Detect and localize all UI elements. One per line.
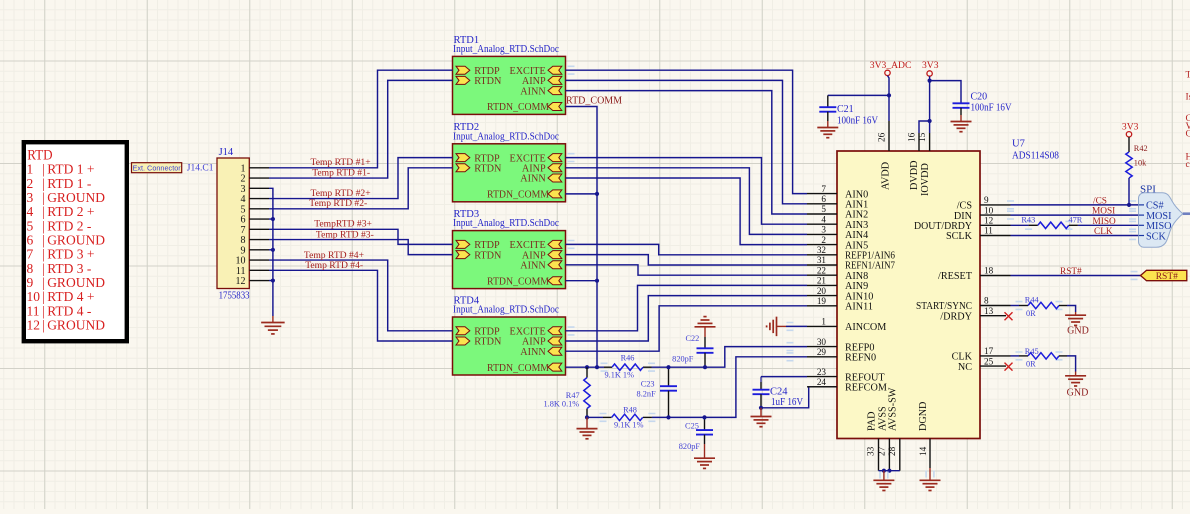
ground under C24 (751, 416, 772, 418)
svg-text:R42: R42 (1134, 144, 1148, 153)
wire: 3V3 to DVDD/IOVDD (929, 76, 931, 133)
svg-text:RTDN: RTDN (474, 164, 502, 175)
U7 pin 6 AIN1 (807, 203, 837, 205)
wire: J14.1 to RTD1 RTDP (269, 70, 453, 168)
svg-text:AVSS: AVSS (877, 406, 888, 431)
svg-text:2: 2 (27, 176, 34, 191)
svg-text:4: 4 (821, 214, 826, 224)
svg-text:|: | (42, 247, 45, 262)
svg-text:47R: 47R (1069, 216, 1083, 225)
resistor R44 (1019, 305, 1028, 307)
inverted ground above C22 (695, 326, 716, 328)
svg-text:J14.C1: J14.C1 (187, 164, 214, 174)
svg-text:AINN: AINN (520, 86, 546, 97)
sheet entry RTDP (RTD2) (456, 154, 470, 162)
sheet entry RTDP (RTD4) (456, 327, 470, 335)
U7 pin 30 REFP0 (807, 346, 837, 348)
svg-text:MISO: MISO (1093, 217, 1117, 227)
wire: J14.4 to RTD2 RTDP (269, 158, 453, 199)
ground below DGND (929, 468, 931, 480)
svg-text:1: 1 (27, 162, 34, 177)
wire: RTD2 EXCITE to AIN3 (566, 158, 808, 225)
svg-text:C25: C25 (685, 422, 699, 431)
ground at R44 (1065, 314, 1086, 316)
sheet entry AINN (RTD4) (548, 347, 562, 355)
svg-text:Input_Analog_RTD.SchDoc: Input_Analog_RTD.SchDoc (453, 305, 559, 316)
svg-text:/DRDY: /DRDY (940, 311, 972, 322)
resistor R48 (603, 416, 612, 418)
svg-text:AVSS-SW: AVSS-SW (888, 387, 899, 431)
svg-text:IOVDD: IOVDD (920, 163, 931, 196)
wire: RTD2 AINP to AIN4 (566, 168, 808, 235)
svg-text:RTD_COMM: RTD_COMM (566, 95, 622, 106)
svg-text:820pF: 820pF (679, 442, 701, 451)
wire: RTD1 AINN to AIN2 (566, 91, 808, 214)
svg-text:2: 2 (821, 235, 826, 245)
svg-text:1: 1 (821, 317, 826, 327)
svg-text:23: 23 (817, 367, 827, 377)
svg-text:RST#: RST# (1156, 272, 1178, 282)
svg-text:29: 29 (817, 347, 827, 357)
svg-text:REFCOM: REFCOM (845, 383, 887, 394)
sheet entry AINP (RTD2) (548, 164, 562, 172)
U7 pin 15 IOVDD (929, 133, 931, 151)
svg-text:9: 9 (984, 195, 989, 205)
svg-text:GROUND: GROUND (47, 318, 105, 333)
svg-text:RTD 4 +: RTD 4 + (47, 289, 94, 304)
svg-text:Temp RTD #1-: Temp RTD #1- (312, 168, 370, 179)
U7 pin 29 REFN0 (807, 356, 837, 358)
resistor R43 (1029, 224, 1038, 226)
ground below AVSS (883, 471, 885, 481)
svg-text:32: 32 (817, 245, 827, 255)
wire: to C21 (828, 94, 889, 96)
wire: J14.11 to RTD4 RTDN (269, 270, 453, 341)
wire joining PAD/AVSS/AVSS-SW (879, 470, 900, 472)
svg-text:SCK: SCK (1146, 231, 1166, 242)
svg-text:3V3: 3V3 (1122, 122, 1139, 133)
svg-text:Input_Analog_RTD.SchDoc: Input_Analog_RTD.SchDoc (453, 44, 559, 55)
svg-text:MOSI: MOSI (1092, 207, 1115, 217)
svg-text:RTDN_COMM: RTDN_COMM (487, 190, 549, 201)
sheet entry RTDN (RTD2) (456, 164, 470, 172)
svg-text:|: | (42, 176, 45, 191)
sheet entry AINN (RTD2) (548, 174, 562, 182)
svg-text:3: 3 (821, 225, 826, 235)
resistor R42 (1128, 137, 1130, 152)
svg-text:10k: 10k (1134, 158, 1147, 167)
U7 pin 31 REFN1/AIN7 (807, 264, 837, 266)
svg-text:4: 4 (27, 204, 34, 219)
svg-text:0R: 0R (1026, 309, 1036, 318)
wire: RTD3 EXCITE to REFP1/AIN6 (566, 244, 808, 254)
sheet entry AINN (RTD3) (548, 261, 562, 269)
connector pinout table (24, 142, 127, 341)
svg-text:Temp RTD #2-: Temp RTD #2- (309, 198, 367, 209)
U7 pin 3 AIN4 (807, 233, 837, 235)
svg-text:C21: C21 (837, 104, 854, 115)
svg-text:10: 10 (27, 289, 41, 304)
svg-text:RST#: RST# (1060, 267, 1082, 277)
svg-text:Temp RTD #3-: Temp RTD #3- (316, 229, 374, 240)
svg-text:3V3_ADC: 3V3_ADC (870, 60, 912, 71)
harness entry MISO (1139, 224, 1144, 226)
svg-text:AINN: AINN (520, 347, 546, 358)
svg-text:5: 5 (821, 204, 826, 214)
svg-text:|: | (42, 275, 45, 290)
svg-text:T: T (1186, 71, 1190, 81)
wire: RTD3 AINN to AIN8 (566, 265, 808, 275)
svg-text:26: 26 (877, 132, 887, 142)
svg-text:33: 33 (866, 446, 876, 456)
svg-text:9.1K 1%: 9.1K 1% (614, 420, 644, 429)
sheet entry AINP (RTD1) (548, 76, 562, 84)
resistor R46 (604, 366, 612, 368)
harness entry SCK (1139, 235, 1144, 237)
svg-text:24: 24 (817, 377, 827, 387)
U7 pin 14 DGND (929, 439, 931, 469)
ground at R45 (1065, 375, 1086, 377)
svg-text:NC: NC (958, 362, 972, 373)
wire: SCLK to harness (1011, 235, 1139, 237)
sheet entry EXCITE (RTD1) (548, 66, 562, 74)
svg-text:6: 6 (821, 194, 826, 204)
svg-text:RTDN: RTDN (474, 250, 502, 261)
wire: RTDN_COMM4 / reference row to REFP0 (566, 366, 605, 368)
svg-text:Temp RTD #1+: Temp RTD #1+ (311, 157, 371, 168)
svg-text:RTD 3 +: RTD 3 + (47, 247, 94, 262)
svg-text:8.2nF: 8.2nF (637, 389, 657, 398)
svg-text:RTD 1 +: RTD 1 + (47, 162, 94, 177)
wire: J14.8 to RTD3 RTDN (269, 240, 453, 255)
terminal hotspot marks (601, 363, 608, 371)
svg-text:R44: R44 (1025, 295, 1040, 304)
sheet entry EXCITE (RTD4) (548, 327, 562, 335)
wire: J14.10 to RTD4 RTDP (269, 260, 453, 331)
wire: RTD2 AINN to AIN5 (566, 178, 808, 245)
svg-text:11: 11 (984, 226, 993, 236)
svg-text:8: 8 (27, 261, 34, 276)
svg-text:ADS114S08: ADS114S08 (1012, 151, 1059, 162)
wire: CLK through R45 to GND (1011, 355, 1020, 357)
svg-text:Ext. Connector: Ext. Connector (132, 164, 181, 173)
wire: J14.5 to RTD2 RTDN (269, 168, 453, 209)
svg-text:28: 28 (887, 446, 897, 456)
U7 pin 11 SCLK (980, 235, 1011, 237)
wire: RTD4 AINP to AIN10 (566, 296, 808, 341)
wire: RTD3 AINP to REFN1/AIN7 (566, 255, 808, 265)
wire: AINCOM (786, 325, 807, 327)
wire: RTD3 RTDN_COMM stub (566, 280, 598, 282)
svg-text:7: 7 (27, 247, 34, 262)
U7 pin 16 DVDD (918, 133, 920, 151)
U7 pin 2 AIN5 (807, 244, 837, 246)
connector J14 (217, 158, 249, 289)
svg-text:/CS: /CS (1093, 197, 1107, 207)
sheet entry RTDN (RTD4) (456, 337, 470, 345)
svg-text:21: 21 (817, 276, 827, 286)
svg-text:Input_Analog_RTD.SchDoc: Input_Analog_RTD.SchDoc (453, 131, 559, 142)
U7 pin 23 REFOUT (807, 376, 837, 378)
svg-text:RTD 2 -: RTD 2 - (47, 218, 92, 233)
svg-text:27: 27 (876, 446, 886, 456)
svg-text:REFN0: REFN0 (845, 353, 876, 364)
svg-text:11: 11 (27, 303, 40, 318)
capacitor C25 (704, 417, 706, 430)
svg-text:SCLK: SCLK (946, 231, 973, 242)
svg-text:820pF: 820pF (672, 354, 694, 363)
svg-text:R46: R46 (621, 354, 635, 363)
sheet entry AINN (RTD1) (548, 87, 562, 95)
svg-text:3V3: 3V3 (922, 60, 939, 71)
svg-text:R48: R48 (623, 406, 637, 415)
svg-text:C23: C23 (641, 380, 655, 389)
capacitor C24 (760, 377, 762, 382)
wire: /RESET to RST# port (1011, 275, 1142, 277)
svg-text:13: 13 (984, 306, 994, 316)
svg-text:C20: C20 (971, 92, 988, 103)
wire: DOUT/DRDY through R43 (1011, 224, 1029, 226)
wire: C24 bottom to REFCOM (761, 387, 812, 408)
svg-text:|: | (42, 204, 45, 219)
svg-text:18: 18 (984, 266, 994, 276)
svg-text:R43: R43 (1021, 216, 1035, 225)
svg-text:1755833: 1755833 (219, 291, 250, 302)
wire: RTD1 EXCITE to AIN0 (566, 70, 808, 193)
svg-text:17: 17 (984, 346, 994, 356)
capacitor C21 (827, 95, 829, 107)
wire: RTD4 EXCITE to AIN9 (566, 285, 808, 330)
capacitor C22 (704, 337, 706, 348)
svg-text:GROUND: GROUND (47, 190, 105, 205)
svg-text:PAD: PAD (867, 412, 878, 431)
sheet entry RTDP (RTD3) (456, 240, 470, 248)
ground under R47 (586, 417, 588, 428)
wire: START/SYNC through R44 to GND (1011, 305, 1020, 307)
U7 pin 1 AINCOM (807, 325, 837, 327)
svg-text:DGND: DGND (918, 402, 929, 431)
no-connect X on pin 25 (1005, 363, 1013, 371)
svg-text:12: 12 (27, 318, 41, 333)
svg-text:15: 15 (917, 132, 927, 142)
svg-text:GND: GND (1067, 387, 1089, 398)
U7 pin 26 AVDD (888, 121, 890, 151)
sheet entry AINP (RTD3) (548, 251, 562, 259)
U7 pin 4 AIN3 (807, 223, 837, 225)
U7 pin 18 /RESET (980, 275, 1011, 277)
ground under C21 (817, 127, 838, 129)
svg-text:3: 3 (27, 190, 34, 205)
sheet entry RTDP (RTD1) (456, 66, 470, 74)
svg-text:Input_Analog_RTD.SchDoc: Input_Analog_RTD.SchDoc (453, 218, 559, 229)
port RST# (1141, 270, 1187, 280)
wire: J14 ground bus (269, 188, 273, 316)
svg-text:20: 20 (817, 286, 827, 296)
capacitor C23 (668, 367, 670, 386)
sheet entry AINP (RTD4) (548, 337, 562, 345)
svg-text:c: c (1186, 160, 1190, 170)
harness entry MOSI (1139, 214, 1144, 216)
svg-text:J14: J14 (219, 147, 234, 158)
wire: RTD1 AINP to AIN1 (566, 80, 808, 203)
U7 pin 12 DOUT/DRDY (980, 224, 1011, 226)
junction dots on ground bus (271, 217, 275, 221)
capacitor C20 (953, 102, 970, 104)
svg-text:7: 7 (821, 184, 826, 194)
U7 pin 24 REFCOM (807, 386, 837, 388)
svg-text:TempRTD #3+: TempRTD #3+ (314, 219, 372, 230)
U7 pin 13 /DRDY (980, 315, 1006, 317)
sheet entry RTDN_COMM (RTD3) (548, 277, 562, 285)
U7 pin 20 AIN10 (807, 295, 837, 297)
svg-text:25: 25 (984, 356, 994, 366)
svg-text:RTDN_COMM: RTDN_COMM (487, 363, 549, 374)
U7 pin 9 /CS (980, 204, 1011, 206)
U7 pin 21 AIN9 (807, 284, 837, 286)
U7 pin 33 PAD (878, 439, 880, 471)
svg-text:100nF 16V: 100nF 16V (971, 103, 1013, 114)
svg-text:12: 12 (236, 276, 246, 287)
U7 pin 28 AVSS-SW (899, 439, 901, 471)
U7 pin 25 NC (980, 365, 1006, 367)
wire: RTD2 RTDN_COMM stub (566, 193, 598, 195)
svg-text:C22: C22 (685, 334, 699, 343)
svg-text:22: 22 (817, 265, 827, 275)
svg-text:|: | (42, 261, 45, 276)
svg-text:R45: R45 (1025, 347, 1039, 356)
svg-text:8: 8 (984, 296, 989, 306)
sheet entry RTDN (RTD1) (456, 76, 470, 84)
svg-text:AIN11: AIN11 (845, 302, 873, 313)
svg-text:|: | (42, 190, 45, 205)
svg-text:31: 31 (817, 255, 827, 265)
svg-text:RTD 4 -: RTD 4 - (47, 303, 92, 318)
ground symbol below J14 (272, 316, 274, 323)
wire: row B to REFN0 (587, 416, 603, 418)
wire: 3V3_ADC to AVDD (888, 76, 890, 121)
svg-text:RTD 2 +: RTD 2 + (47, 204, 94, 219)
no-connect X on pin 13 (1005, 312, 1013, 320)
harness entry CS# (1139, 204, 1144, 206)
svg-text:19: 19 (817, 296, 827, 306)
sheet entry RTDN_COMM (RTD2) (548, 190, 562, 198)
svg-text:9.1K 1%: 9.1K 1% (605, 371, 635, 380)
wire: J14.2 to RTD1 RTDN (269, 80, 453, 178)
svg-text:|: | (42, 289, 45, 304)
svg-text:GROUND: GROUND (47, 275, 105, 290)
U7 pin 19 AIN11 (807, 305, 837, 307)
wire: /CS to harness (1011, 204, 1139, 206)
IC U7 ADS114S08 (837, 151, 980, 439)
svg-text:|: | (42, 318, 45, 333)
U7 pin 5 AIN2 (807, 213, 837, 215)
U7 pin 10 DIN (980, 214, 1011, 216)
sheet entry EXCITE (RTD3) (548, 240, 562, 248)
svg-text:AINN: AINN (520, 174, 546, 185)
svg-text:|: | (42, 218, 45, 233)
svg-text:14: 14 (918, 446, 928, 456)
sheet entry EXCITE (RTD2) (548, 154, 562, 162)
U7 pin 27 AVSS (888, 439, 890, 471)
wire: 3V3 to C20 (930, 81, 961, 104)
svg-text:RTDN: RTDN (474, 337, 502, 348)
svg-text:12: 12 (984, 216, 994, 226)
svg-text:C: C (1186, 129, 1190, 139)
svg-text:AINCOM: AINCOM (845, 322, 886, 333)
resistor R45 (1019, 355, 1028, 357)
svg-text:1uF 16V: 1uF 16V (771, 397, 803, 408)
svg-text:RTDN_COMM: RTDN_COMM (487, 276, 549, 287)
svg-text:30: 30 (817, 337, 827, 347)
wire: RTD4 AINN to AIN11 (566, 306, 808, 351)
svg-text:U7: U7 (1012, 139, 1025, 150)
U7 pin 32 REFP1/AIN6 (807, 254, 837, 256)
resistor R47 (586, 367, 588, 377)
U7 pin 7 AIN0 (807, 193, 837, 195)
svg-text:10: 10 (984, 205, 994, 215)
sheet entry RTDN (RTD3) (456, 251, 470, 259)
svg-text:6: 6 (27, 233, 34, 248)
svg-text:RTDN: RTDN (474, 76, 502, 87)
svg-text:100nF 16V: 100nF 16V (837, 116, 879, 127)
svg-text:RTD 1 -: RTD 1 - (47, 176, 92, 191)
Ext. Connector label (132, 163, 182, 173)
sheet entry RTDN_COMM (RTD1) (548, 103, 562, 111)
svg-text:AINN: AINN (520, 261, 546, 272)
wire: DIN to harness (1011, 214, 1139, 216)
U7 pin 17 CLK (980, 355, 1011, 357)
wire: J14.7 to RTD3 RTDP (269, 229, 453, 244)
wire: RTD1 RTDN_COMM / RTD_COMM vertical (566, 107, 598, 368)
svg-text:Is: Is (1186, 93, 1190, 103)
svg-text:0R: 0R (1026, 359, 1036, 368)
svg-text:GND: GND (1067, 326, 1089, 337)
svg-text:GROUND: GROUND (47, 233, 105, 248)
svg-text:RTD 3 -: RTD 3 - (47, 261, 92, 276)
sheet entry RTDN_COMM (RTD4) (548, 363, 562, 371)
svg-text:1.8K 0.1%: 1.8K 0.1% (544, 399, 580, 408)
sideways ground at AINCOM (776, 317, 778, 337)
ground under C20 (951, 121, 972, 123)
svg-text:9: 9 (27, 275, 34, 290)
svg-text:AVDD: AVDD (881, 162, 892, 190)
U7 pin 22 AIN8 (807, 274, 837, 276)
svg-text:DVDD: DVDD (909, 161, 920, 190)
svg-text:CLK: CLK (1094, 227, 1113, 237)
svg-text:|: | (42, 303, 45, 318)
svg-text:/RESET: /RESET (938, 271, 973, 282)
svg-text:Temp RTD #4-: Temp RTD #4- (305, 260, 363, 271)
svg-text:16: 16 (907, 132, 917, 142)
svg-text:5: 5 (27, 218, 34, 233)
svg-text:|: | (42, 233, 45, 248)
svg-text:RTDN_COMM: RTDN_COMM (487, 102, 549, 113)
svg-text:|: | (42, 162, 45, 177)
U7 pin 8 START/SYNC (980, 305, 1011, 307)
